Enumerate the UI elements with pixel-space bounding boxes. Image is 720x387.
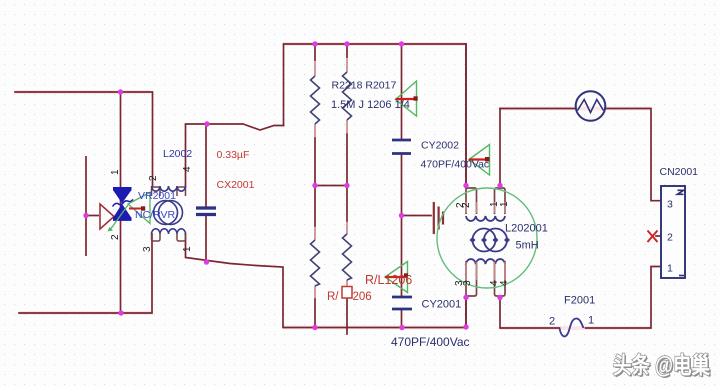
svg-text:VR2001: VR2001 [138,190,176,202]
svg-text:2: 2 [110,234,121,240]
svg-text:1.5M J 1206 1/4: 1.5M J 1206 1/4 [331,99,410,111]
svg-text:2: 2 [148,175,159,181]
svg-text:3: 3 [667,199,673,211]
svg-text:头条 @电巢: 头条 @电巢 [613,352,710,378]
svg-text:206: 206 [353,291,372,303]
svg-text:1: 1 [110,169,121,175]
svg-text:1: 1 [182,246,193,252]
svg-text:CY2002: CY2002 [421,140,459,152]
svg-text:R/L1206: R/L1206 [365,273,412,287]
svg-text:L202001: L202001 [505,223,548,235]
svg-text:F2001: F2001 [564,295,595,307]
svg-text:1: 1 [588,315,594,327]
svg-text:2: 2 [667,232,673,244]
svg-text:CY2001: CY2001 [422,299,462,311]
svg-text:CX2001: CX2001 [217,179,255,191]
svg-text:5mH: 5mH [516,240,539,252]
svg-text:4: 4 [182,166,193,172]
svg-text:2: 2 [461,202,472,208]
svg-text:470PF/400Vac: 470PF/400Vac [391,335,470,349]
svg-text:1: 1 [499,201,510,207]
svg-text:R/: R/ [327,291,339,303]
svg-text:1: 1 [667,263,673,275]
svg-text:3: 3 [142,246,153,252]
svg-text:470PF/400Vac: 470PF/400Vac [421,159,490,171]
svg-text:NC/RVR: NC/RVR [135,209,175,221]
svg-text:CN2001: CN2001 [660,166,699,178]
svg-text:4: 4 [499,280,510,286]
svg-text:0.33µF: 0.33µF [217,149,250,161]
svg-text:2: 2 [549,316,555,328]
svg-text:3: 3 [462,280,473,286]
svg-text:L2002: L2002 [163,148,192,160]
svg-text:R2218 R2017: R2218 R2017 [332,80,397,92]
